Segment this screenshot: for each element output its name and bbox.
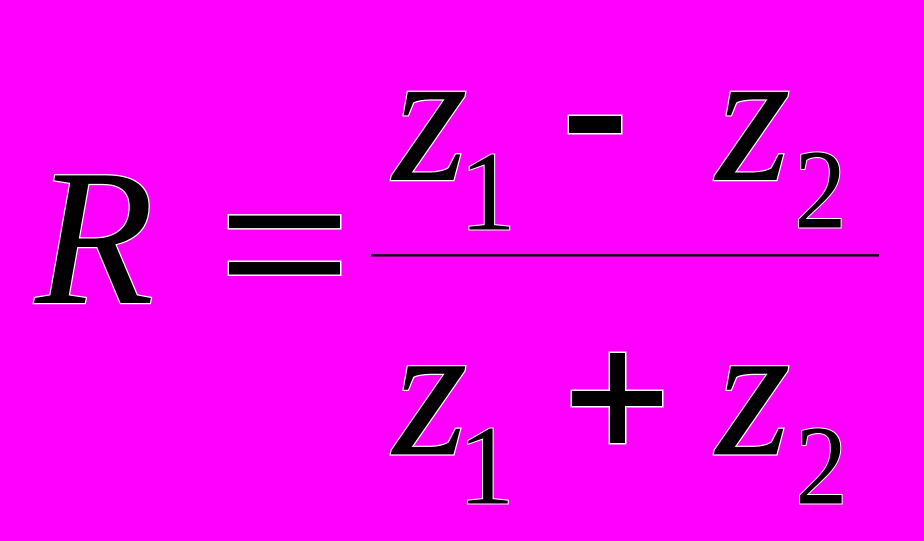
svg-text:2: 2 [794,128,846,253]
svg-text:R: R [33,130,154,346]
denominator z2 : subscript 2 [795,404,847,529]
svg-text:z: z [713,9,791,222]
numerator z1 : z [390,9,468,222]
denominator z1 : subscript 1 [458,404,515,529]
minus operator [568,115,623,135]
equals sign [228,214,342,276]
denominator z1 : z [390,283,468,496]
svg-text:z: z [390,9,468,222]
svg-text:1: 1 [458,404,515,529]
variable R [33,130,154,346]
plus operator [571,352,664,445]
fraction bar [371,254,879,256]
numerator z1 : subscript 1 [460,130,517,255]
denominator z2 : z [713,283,791,496]
svg-text:2: 2 [795,404,847,529]
numerator z2 : z [713,9,791,222]
numerator z2 : subscript 2 [794,128,846,253]
svg-text:1: 1 [460,130,517,255]
svg-text:z: z [390,283,468,496]
svg-text:z: z [713,283,791,496]
